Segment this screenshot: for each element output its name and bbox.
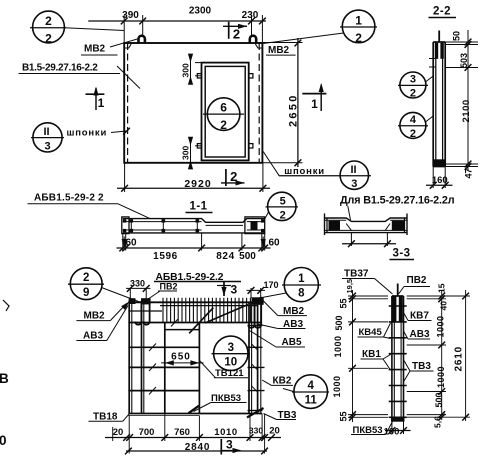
svg-text:АВ3: АВ3: [283, 319, 303, 330]
vertical bar mid: [164, 323, 166, 414]
svg-text:11: 11: [305, 395, 318, 407]
svg-text:2610: 2610: [454, 346, 465, 371]
svg-text:500: 500: [434, 392, 444, 407]
svg-text:МВ2: МВ2: [283, 306, 305, 317]
svg-text:390: 390: [122, 10, 139, 21]
svg-text:ТВ37: ТВ37: [344, 269, 369, 280]
small section top edges: [325, 218, 408, 221]
section marker 1 right: [302, 93, 326, 95]
label ПВ2 (3-3) underline + leader: [404, 286, 430, 288]
svg-text:КВ45: КВ45: [359, 327, 383, 338]
svg-text:5: 5: [280, 195, 286, 207]
bar break marks: [149, 319, 178, 395]
top edge: [128, 301, 258, 303]
door anchor stub bottom-right: [249, 144, 253, 148]
lifting loop left МВ2: [139, 36, 145, 44]
svg-text:55: 55: [339, 298, 349, 308]
60 arrows: [123, 237, 125, 248]
svg-text:1596: 1596: [153, 251, 178, 262]
callout 5/2 leader: [268, 192, 296, 220]
svg-text:15: 15: [437, 283, 447, 293]
callout 3/2: [400, 72, 426, 98]
svg-text:МВ2: МВ2: [84, 44, 106, 55]
svg-text:1: 1: [311, 97, 318, 111]
label ТВ121 underline + leader: [214, 377, 248, 379]
svg-text:II: II: [350, 164, 356, 176]
section marker 3 bottom: [220, 439, 222, 455]
svg-text:55: 55: [339, 411, 349, 421]
svg-text:3: 3: [226, 438, 233, 452]
diagonal bar right: [205, 305, 248, 324]
svg-text:2920: 2920: [184, 178, 211, 190]
label КВ2 underline + leader to 4/11: [272, 384, 294, 386]
leader МВ2 top-left: [110, 39, 139, 48]
bottom block: [391, 417, 404, 421]
section marker 3 top: [223, 282, 225, 296]
svg-text:МВ2: МВ2: [268, 45, 290, 56]
small section bottom edge: [325, 232, 408, 234]
top embed block 2-2: [435, 43, 438, 59]
corner hook bottom-right: [247, 408, 264, 418]
svg-text:20: 20: [113, 427, 124, 438]
left margin fragment bracket: [3, 300, 9, 311]
label ТВ18 underline + leader: [89, 420, 123, 422]
svg-text:3: 3: [44, 140, 50, 152]
svg-text:2: 2: [410, 88, 416, 100]
svg-text:40: 40: [439, 301, 449, 311]
notch ticks left: [429, 58, 436, 60]
svg-text:1010: 1010: [214, 427, 238, 438]
door opening outer: [202, 63, 249, 161]
left lifting hook: [135, 301, 150, 325]
svg-text:47: 47: [464, 168, 474, 178]
svg-text:3: 3: [351, 178, 357, 190]
svg-text:230: 230: [242, 10, 259, 21]
mesh band lines: [160, 305, 258, 307]
svg-text:9: 9: [83, 287, 89, 299]
svg-text:1: 1: [298, 273, 305, 285]
callout 3/10: [214, 336, 248, 370]
svg-text:шпонки: шпонки: [67, 128, 108, 139]
МВ2 right underline: [266, 54, 296, 56]
section 1-1 bottom edge: [123, 232, 265, 234]
callout 2/9: [70, 268, 102, 300]
right lifting hook: [248, 301, 261, 328]
svg-text:2: 2: [280, 209, 286, 221]
svg-text:2: 2: [230, 169, 237, 184]
inner lines left part: [123, 221, 202, 223]
leader 1/2: [263, 33, 344, 44]
svg-text:Для В1.5-29.27.16-2.2л: Для В1.5-29.27.16-2.2л: [340, 195, 455, 207]
svg-text:2: 2: [220, 118, 227, 132]
panel inner dashed line left: [127, 43, 129, 163]
header 2-2 underline: [429, 17, 457, 19]
svg-text:2840: 2840: [185, 442, 210, 453]
section marker 2 bottom: [225, 169, 227, 186]
bottom block 2-2: [433, 159, 445, 166]
svg-text:300: 300: [181, 146, 191, 160]
section 2-2 element body: [432, 42, 434, 167]
end plates: [122, 217, 129, 234]
door left edge bar: [198, 323, 200, 414]
svg-text:60: 60: [269, 238, 281, 249]
leader шпонки right: [263, 152, 279, 176]
svg-text:КВ2: КВ2: [273, 376, 292, 387]
door anchor stub top-right: [249, 74, 253, 78]
svg-text:КВ1: КВ1: [362, 349, 381, 360]
svg-text:170: 170: [264, 280, 279, 290]
svg-text:МВ2: МВ2: [84, 311, 106, 322]
divider verticals 1-1: [130, 219, 132, 233]
callout circle 2/2 top-left: [33, 11, 65, 43]
svg-text:3-3: 3-3: [392, 248, 410, 260]
svg-text:ТВ3: ТВ3: [278, 410, 297, 421]
label ТВ3 (3-3) underline + leaders: [410, 370, 434, 372]
leader шпонки left: [111, 131, 127, 133]
svg-text:АБВ1.5-29-2 2: АБВ1.5-29-2 2: [34, 193, 104, 204]
svg-text:19,5: 19,5: [345, 279, 354, 294]
corner hook door bottom-left: [189, 406, 199, 413]
label АВ5 underline + leader: [276, 346, 305, 348]
dim 300 bottom at door: [188, 137, 202, 170]
svg-text:II: II: [43, 126, 49, 138]
svg-text:50: 50: [452, 31, 462, 41]
bottom edge: [128, 413, 262, 415]
embed squares 1-1: [123, 219, 126, 222]
svg-text:0: 0: [0, 433, 7, 448]
svg-text:В: В: [0, 371, 9, 386]
svg-text:АВ5: АВ5: [282, 337, 302, 348]
callout 4/2: [400, 112, 426, 138]
inner lines right part: [247, 221, 265, 223]
label МВ2 left underline + leader: [76, 320, 110, 322]
label ТВ37 underline + leader: [342, 278, 375, 280]
bottom dim row 1: [113, 414, 265, 454]
dim row 1-1: [123, 233, 265, 251]
svg-text:2: 2: [233, 27, 240, 42]
door anchor stub top-left: [197, 74, 201, 78]
В1.5 label underline: [19, 73, 121, 75]
svg-text:503: 503: [459, 53, 469, 68]
diagonal bar at door corner: [189, 308, 213, 334]
end plates: [324, 214, 326, 236]
panel outline: [124, 43, 262, 163]
svg-text:6: 6: [220, 100, 227, 114]
right block embed: [251, 221, 258, 231]
svg-text:1000: 1000: [332, 375, 342, 397]
inner lines: [325, 219, 347, 221]
horizontal tie at 311: [128, 310, 162, 312]
header 1-1 underline: [186, 212, 213, 214]
svg-text:2: 2: [83, 272, 89, 284]
svg-text:АВ3: АВ3: [410, 329, 430, 340]
label МВ2 right underline + leader: [278, 315, 307, 317]
svg-text:1: 1: [98, 96, 105, 110]
svg-text:ПКВ53: ПКВ53: [211, 393, 241, 404]
label КВ1 underline + leaders: [361, 358, 384, 360]
label ПКВ53 underline + leader: [211, 402, 247, 404]
svg-text:1000: 1000: [436, 366, 446, 388]
dark embed blocks: [329, 221, 341, 231]
bottom dimension 2920: [117, 187, 270, 189]
svg-text:ПКВ53: ПКВ53: [353, 425, 383, 436]
recess inner line: [206, 224, 243, 226]
label ПВ2 underline + leader: [158, 290, 177, 292]
svg-text:10: 10: [224, 357, 237, 369]
svg-text:2-2: 2-2: [433, 6, 451, 18]
svg-text:ПВ2: ПВ2: [160, 282, 178, 292]
cross ties: [389, 306, 407, 417]
right edge bars: [257, 301, 259, 414]
section 1-1 top edge with recess: [123, 219, 265, 223]
dim 160 bottom 2-2: [432, 167, 434, 189]
svg-text:100: 100: [384, 427, 400, 438]
loop pin 2-2: [438, 31, 440, 43]
label ТВ3 underline + leader: [277, 419, 297, 421]
callout circle 1/2 top-right: [342, 10, 375, 43]
callout circle II/3 right: [340, 161, 368, 189]
svg-text:2: 2: [45, 31, 52, 45]
dim below small section: [350, 233, 352, 246]
svg-text:4: 4: [410, 114, 417, 126]
svg-text:В1.5-29.27.16-2.2: В1.5-29.27.16-2.2: [22, 63, 98, 74]
leader В1.5 label: [117, 66, 140, 89]
svg-text:824: 824: [216, 251, 235, 262]
header АБВ1.5-29-2.2 underline: [154, 281, 241, 283]
door anchor stub bottom-left: [197, 144, 201, 148]
dim 170 top right: [247, 288, 266, 298]
door right edge bars: [248, 303, 250, 414]
right dimension 2650: [256, 42, 303, 44]
svg-text:2300: 2300: [189, 6, 212, 17]
section marker 1 left: [86, 93, 105, 95]
label АВ3 right underline + leader: [278, 328, 306, 330]
svg-text:КВ7: КВ7: [410, 311, 429, 322]
svg-text:2: 2: [410, 128, 416, 140]
element body verticals: [391, 296, 393, 421]
lifting loop right МВ2: [250, 36, 256, 44]
left dim chain of 3-3: [348, 290, 388, 422]
callout circle 6/2: [207, 98, 240, 131]
svg-text:650: 650: [171, 352, 191, 363]
right inner dim chain: [407, 290, 470, 420]
svg-text:1: 1: [355, 13, 362, 27]
svg-text:700: 700: [139, 427, 155, 438]
label АБВ1.5-29-2.2 leaders: [28, 203, 119, 205]
svg-text:4: 4: [307, 380, 314, 392]
callout circle II/3 left: [33, 123, 62, 152]
svg-text:20: 20: [269, 426, 280, 437]
top corner steps: [124, 44, 262, 48]
svg-text:АВ3: АВ3: [83, 331, 103, 342]
header 3-3 underline: [390, 259, 415, 261]
svg-text:160: 160: [432, 175, 448, 186]
svg-text:ТВ121: ТВ121: [215, 368, 244, 379]
svg-text:1000: 1000: [436, 315, 446, 337]
svg-text:8: 8: [298, 288, 305, 300]
svg-text:300: 300: [181, 63, 191, 77]
callout 4/11: [294, 375, 328, 409]
svg-text:330: 330: [130, 279, 145, 289]
svg-text:60: 60: [126, 238, 138, 249]
svg-text:2: 2: [45, 14, 52, 28]
left vertical bars: [128, 301, 130, 414]
dim 330 top: [126, 288, 151, 299]
dim 650: [161, 362, 204, 364]
label КВ7 underline + leader: [408, 320, 432, 322]
svg-text:ТВ3: ТВ3: [412, 361, 431, 372]
dim 300 top at door: [188, 54, 202, 85]
loop pin: [397, 284, 399, 297]
label ПКВ53 (3-3) underline + leader: [351, 434, 386, 436]
right outer dim chain 2610: [465, 290, 467, 421]
svg-text:500: 500: [334, 315, 344, 330]
svg-text:3: 3: [231, 283, 238, 297]
mesh vertical ticks: [163, 298, 254, 323]
svg-text:760: 760: [174, 427, 190, 438]
svg-text:5,6: 5,6: [433, 416, 443, 428]
horizontal bars: [165, 329, 200, 331]
svg-text:ТВ18: ТВ18: [93, 412, 118, 423]
top dimension row 390/2300/230: [88, 20, 266, 22]
svg-text:1000: 1000: [333, 335, 343, 357]
label АВ3 (3-3) underline + leader: [408, 338, 430, 340]
svg-text:500: 500: [239, 251, 256, 262]
svg-text:2100: 2100: [461, 99, 472, 122]
panel inner dashed line right: [258, 43, 260, 163]
label АВ3 left underline + leader: [76, 340, 106, 342]
top embed dense zone: [393, 297, 397, 323]
svg-text:шпонки: шпонки: [284, 166, 325, 177]
svg-text:2650: 2650: [288, 93, 300, 127]
dim chain 2-2 right: [445, 30, 478, 171]
svg-text:330: 330: [249, 426, 263, 436]
leader 2/2: [64, 28, 124, 31]
dim 100 bottom: [391, 421, 393, 434]
bottom dim row 2 (2840): [126, 450, 267, 452]
svg-text:3: 3: [410, 74, 416, 86]
section marker 2 top: [228, 22, 230, 39]
svg-text:ПВ2: ПВ2: [407, 275, 427, 286]
leader from label: [348, 206, 351, 220]
svg-text:3: 3: [228, 342, 234, 354]
svg-text:1-1: 1-1: [189, 201, 207, 213]
svg-text:2: 2: [355, 31, 362, 45]
МВ2 underline: [81, 54, 118, 56]
recess corner slants: [346, 224, 351, 231]
callout 1/8: [284, 268, 318, 302]
door opening inner: [205, 66, 245, 157]
label КВ45 underline + leaders: [358, 336, 384, 338]
